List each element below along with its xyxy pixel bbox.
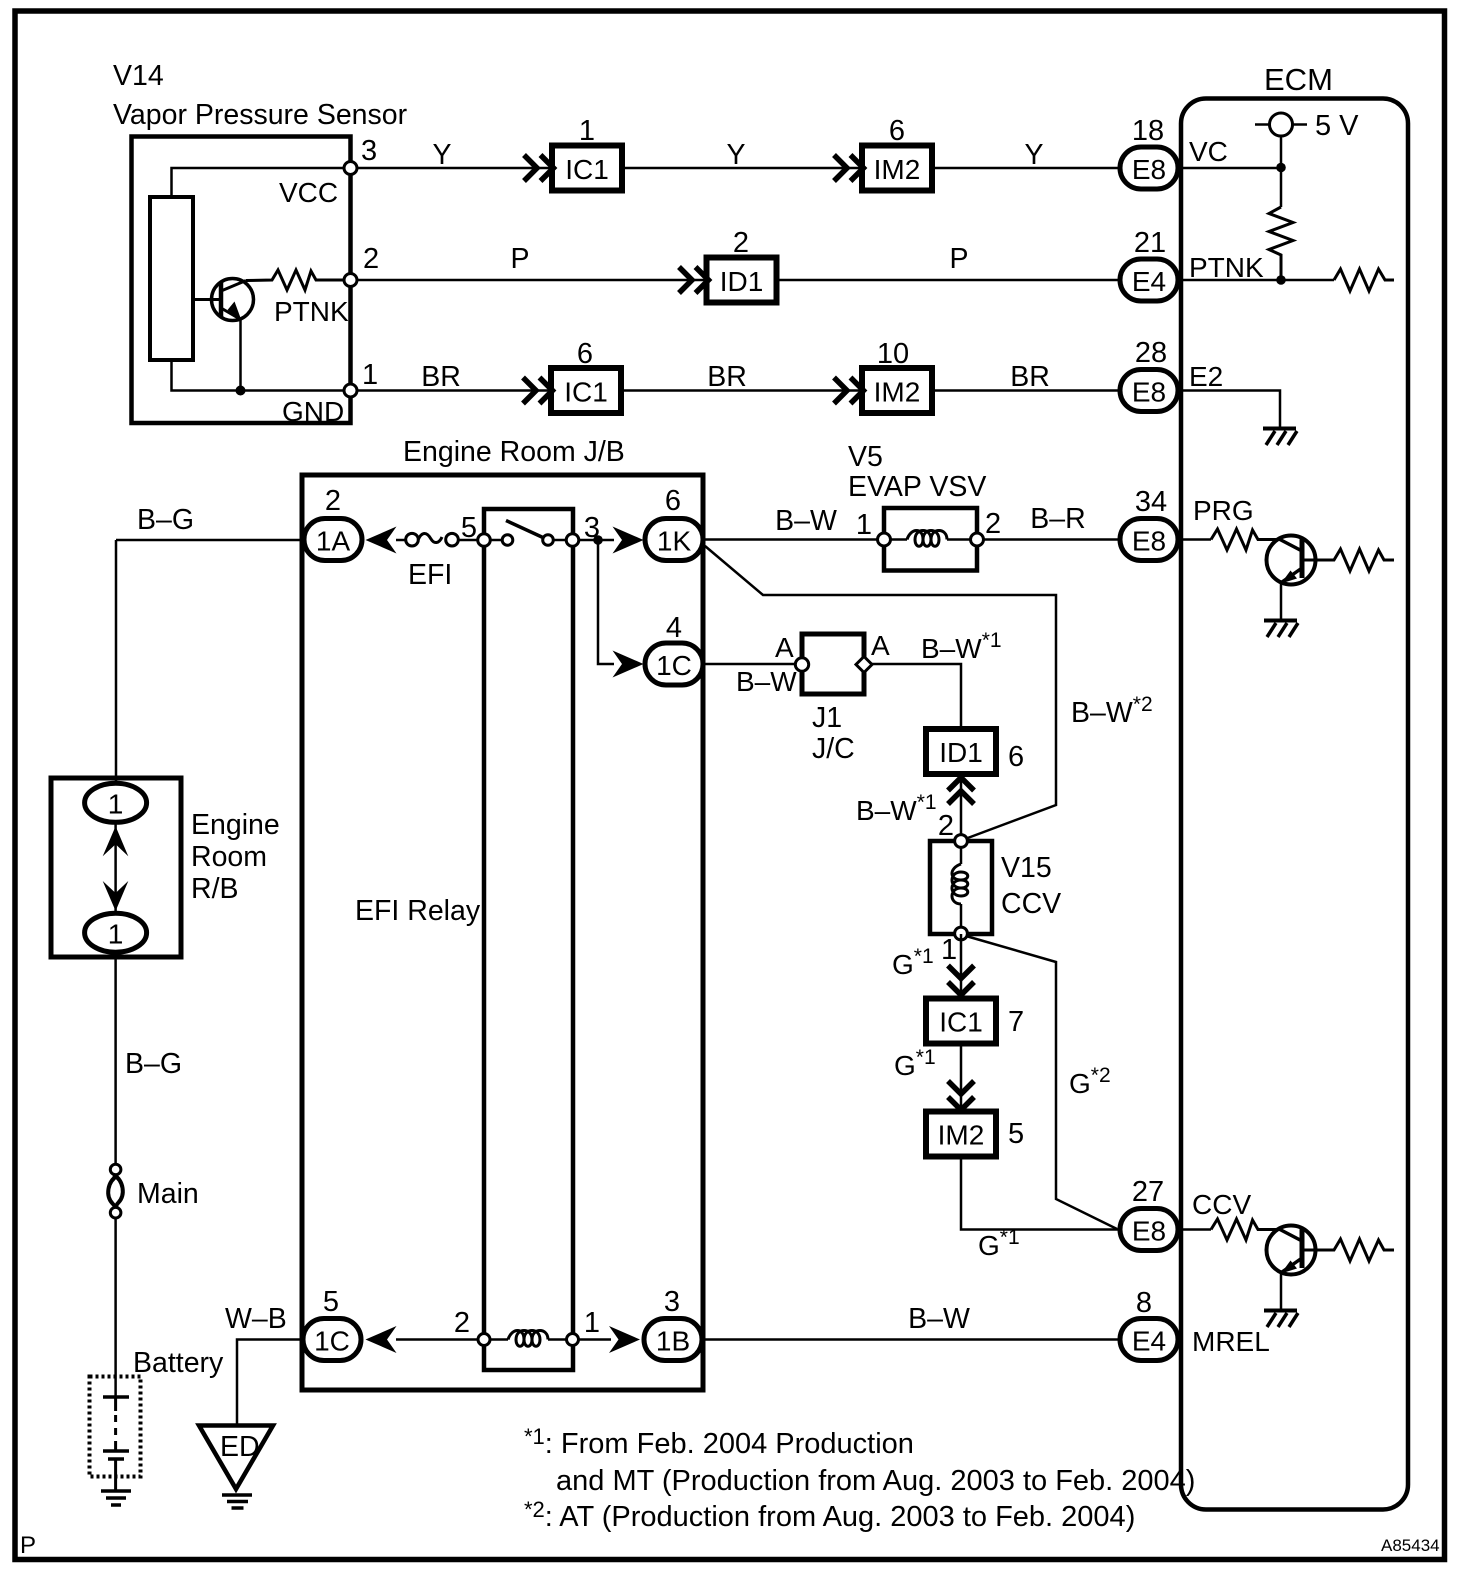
- chassis ground (PRG): [1264, 621, 1298, 638]
- svg-text:E8: E8: [1132, 377, 1166, 408]
- svg-text:BR: BR: [1010, 361, 1050, 393]
- connector E8 pin 28: [1120, 370, 1178, 412]
- wire Main to Battery: [114, 1218, 117, 1397]
- svg-text:E8: E8: [1132, 526, 1166, 557]
- svg-text:V5: V5: [848, 441, 883, 473]
- svg-text:6: 6: [577, 338, 593, 370]
- wire B-G vertical to R/B: [115, 540, 118, 784]
- svg-text:5: 5: [1008, 1118, 1024, 1150]
- svg-text:ID1: ID1: [939, 737, 983, 768]
- junction dot node 3: [593, 535, 603, 545]
- connector 1A pin 2: [304, 519, 362, 561]
- 5V supply symbol: [1255, 113, 1307, 136]
- svg-text:EVAP VSV: EVAP VSV: [848, 471, 986, 503]
- wire VC from E8 to node: [1178, 167, 1281, 170]
- wire BR IM2 to ECM E8: [932, 389, 1120, 392]
- transistor (PRG driver): [1267, 536, 1316, 585]
- relay switch pin circle (edge): [478, 534, 491, 547]
- svg-text:P: P: [949, 243, 968, 275]
- svg-text:3: 3: [664, 1286, 680, 1318]
- svg-text:Battery: Battery: [133, 1347, 224, 1379]
- relay switch pin circle (edge): [566, 534, 579, 547]
- connector 1C pin 5: [303, 1319, 361, 1361]
- connector chevrons into IM2: [834, 378, 864, 404]
- connector chevrons up into ID1: [948, 778, 974, 805]
- wire relay coil to 1B: [579, 1338, 611, 1341]
- svg-text:IC1: IC1: [565, 154, 609, 185]
- arrow into 1K: [613, 527, 644, 554]
- J/C pin A circle: [795, 658, 808, 671]
- svg-text:J1: J1: [812, 702, 842, 734]
- wire B-G to 1A: [116, 539, 304, 542]
- svg-text:1K: 1K: [657, 526, 692, 557]
- relay coil pin circle: [567, 1334, 579, 1346]
- svg-text:EFI: EFI: [408, 559, 452, 591]
- resistor (PRG base): [1211, 529, 1280, 550]
- wire arrow to fuse: [396, 539, 406, 542]
- wire inside relay: [490, 539, 502, 542]
- svg-text:GND: GND: [282, 396, 344, 427]
- svg-text:21: 21: [1134, 227, 1166, 259]
- svg-text:28: 28: [1135, 337, 1167, 369]
- svg-text:B–W: B–W: [736, 666, 797, 697]
- svg-text:PRG: PRG: [1193, 495, 1254, 526]
- wire 5V to VC node: [1280, 136, 1283, 207]
- svg-text:V15: V15: [1001, 852, 1052, 884]
- chassis ground (CCV): [1264, 1311, 1298, 1328]
- svg-text:Y: Y: [1024, 139, 1043, 171]
- VSV pin 2 circle: [971, 533, 984, 546]
- sensing element: [150, 197, 193, 360]
- connector 1B pin 3: [644, 1319, 702, 1361]
- svg-text:*1: From Feb. 2004 Production: *1: From Feb. 2004 Production: [524, 1424, 914, 1460]
- arrow up (R/B pass-through): [103, 826, 129, 856]
- svg-text:Engine Room J/B: Engine Room J/B: [403, 436, 625, 468]
- relay switch blade: [506, 521, 544, 539]
- svg-text:PTNK: PTNK: [274, 296, 349, 327]
- connector chevrons into IC1: [523, 378, 553, 404]
- svg-text:34: 34: [1135, 486, 1167, 518]
- EVAP VSV V5 box: [884, 508, 977, 571]
- svg-text:1C: 1C: [314, 1326, 350, 1357]
- svg-text:V14: V14: [113, 60, 164, 92]
- wire P ID1 to ECM E4: [777, 279, 1121, 282]
- Engine Room R/B box: [51, 778, 181, 957]
- svg-text:2: 2: [363, 243, 379, 275]
- svg-text:7: 7: [1008, 1006, 1024, 1038]
- wire fuse to relay pin 5: [458, 539, 484, 542]
- earth ground (battery): [101, 1491, 131, 1505]
- transistor (CCV driver): [1267, 1226, 1316, 1275]
- svg-text:E4: E4: [1132, 266, 1166, 297]
- svg-text:ECM: ECM: [1264, 62, 1333, 97]
- VSV pin 1 circle: [878, 533, 891, 546]
- svg-text:R/B: R/B: [191, 873, 239, 905]
- EFI relay box: [484, 509, 573, 1370]
- svg-text:Main: Main: [137, 1178, 199, 1210]
- svg-text:B–R: B–R: [1030, 503, 1085, 535]
- connector chevrons down to IM2: [948, 1081, 974, 1110]
- resistor (PTNK load): [1334, 269, 1394, 291]
- svg-text:8: 8: [1136, 1287, 1152, 1319]
- arrow into 1B: [609, 1326, 640, 1353]
- relay coil: [490, 1331, 567, 1347]
- svg-text:J/C: J/C: [812, 733, 855, 765]
- svg-text:3: 3: [361, 135, 377, 167]
- connector IC1 (pin 7): [926, 999, 996, 1044]
- svg-text:1A: 1A: [316, 526, 351, 557]
- R/B connector 1 (bottom): [85, 913, 147, 952]
- svg-text:5: 5: [323, 1286, 339, 1318]
- pin 1 circle: [344, 384, 357, 397]
- wire B-R VSV to E8: [984, 538, 1120, 541]
- connector IM2 (pin 6): [862, 146, 932, 191]
- wire between R/B connectors: [114, 822, 117, 912]
- wire PRG from E8 into ECM: [1178, 538, 1211, 541]
- transistor Q1 (sensor internal): [193, 279, 254, 321]
- svg-text:A: A: [871, 630, 890, 661]
- arrow into 1C: [613, 651, 644, 678]
- chassis ground (E2): [1263, 429, 1297, 446]
- VSV coil: [891, 531, 970, 547]
- svg-text:1: 1: [108, 919, 124, 950]
- connector 1K pin 6: [645, 519, 703, 561]
- svg-text:ID1: ID1: [720, 266, 764, 297]
- svg-text:1C: 1C: [656, 650, 692, 681]
- connector chevrons down to IC1: [948, 966, 974, 996]
- svg-text:6: 6: [889, 115, 905, 147]
- svg-text:A: A: [775, 632, 794, 663]
- svg-text:CCV: CCV: [1192, 1189, 1251, 1220]
- wire G*2 from CCV pin 1 to E8: [966, 936, 1117, 1229]
- ground connector ED: [199, 1426, 273, 1490]
- svg-text:IM2: IM2: [874, 377, 921, 408]
- svg-text:2: 2: [938, 810, 954, 842]
- relay switch contact circle: [502, 535, 513, 546]
- svg-text:6: 6: [665, 485, 681, 517]
- ECM box: [1181, 99, 1408, 1510]
- wire B-W 1C to J/C: [704, 663, 796, 666]
- svg-text:E4: E4: [1132, 1326, 1166, 1357]
- CCV V15 box: [930, 841, 992, 934]
- svg-text:*2: AT (Production from Aug. 2: *2: AT (Production from Aug. 2003 to Feb…: [524, 1497, 1135, 1533]
- svg-text:IM2: IM2: [874, 154, 921, 185]
- connector chevrons into IC1: [524, 155, 554, 181]
- connector IC1 (pin 1): [552, 146, 622, 191]
- wire ID1 to CCV pin 2: [960, 774, 963, 841]
- wire B-G R/B to Main fuse: [114, 952, 117, 1165]
- connector chevrons into IM2: [834, 155, 864, 181]
- svg-text:IC1: IC1: [564, 377, 608, 408]
- connector E4 pin 8: [1120, 1319, 1178, 1361]
- svg-text:Y: Y: [432, 139, 451, 171]
- junction dot VC node: [1276, 163, 1286, 173]
- wire B-W 1B to E4 MREL: [704, 1338, 1120, 1341]
- connector IC1 (pin 6): [551, 368, 621, 413]
- svg-text:2: 2: [985, 508, 1001, 540]
- wire BR sensor pin1 to IC1: [357, 389, 551, 392]
- wire emitter to GND junction: [239, 319, 242, 391]
- svg-text:B–G: B–G: [125, 1048, 182, 1080]
- svg-text:4: 4: [666, 612, 682, 644]
- arrow into 1A: [366, 527, 397, 554]
- svg-text:2: 2: [454, 1307, 470, 1339]
- wire P sensor pin2 to ID1: [357, 279, 707, 282]
- wire W-B to 1C: [237, 1340, 304, 1426]
- connector chevrons into ID1: [679, 267, 709, 293]
- svg-text:VCC: VCC: [279, 177, 338, 208]
- wire element top to VCC pin: [172, 168, 346, 197]
- connector 1C pin 4: [645, 643, 703, 685]
- wire CCV from E8 into ECM: [1178, 1228, 1211, 1231]
- junction dot PTNK node: [1276, 275, 1286, 285]
- svg-text:BR: BR: [707, 361, 747, 393]
- arrow into 1C: [366, 1326, 397, 1353]
- R/B connector 1 (top): [85, 783, 147, 822]
- connector ID1 (pin 2): [707, 258, 777, 303]
- relay switch contact circle: [543, 535, 554, 546]
- svg-text:1: 1: [579, 115, 595, 147]
- svg-text:2: 2: [733, 227, 749, 259]
- resistor (pull-up in ECM): [1269, 207, 1293, 280]
- connector E8 pin 18: [1120, 147, 1178, 189]
- svg-text:IC1: IC1: [939, 1007, 983, 1038]
- svg-text:CCV: CCV: [1001, 888, 1061, 920]
- CCV pin 2 circle: [955, 835, 968, 848]
- svg-text:E8: E8: [1132, 1216, 1166, 1247]
- resistor (sensor internal, PTNK line): [246, 270, 345, 290]
- relay coil pin circle: [478, 1334, 490, 1346]
- svg-text:1: 1: [108, 789, 124, 820]
- svg-text:1: 1: [856, 509, 872, 541]
- svg-text:1: 1: [584, 1307, 600, 1339]
- resistor (CCV base): [1211, 1219, 1280, 1240]
- wire transistor to ground: [1280, 1273, 1283, 1310]
- svg-text:6: 6: [1008, 741, 1024, 773]
- svg-text:PTNK: PTNK: [1189, 252, 1264, 283]
- svg-text:10: 10: [877, 338, 909, 370]
- connector IM2 (pin 5): [926, 1112, 996, 1157]
- CCV coil (vertical): [952, 847, 968, 928]
- wire BR IC1 to IM2: [621, 389, 862, 392]
- svg-text:ED: ED: [220, 1431, 260, 1463]
- CCV pin 1 circle: [955, 927, 968, 940]
- svg-text:18: 18: [1132, 115, 1164, 147]
- fusible link Main: [108, 1164, 123, 1218]
- wire inside relay: [553, 539, 566, 542]
- svg-text:Engine: Engine: [191, 809, 280, 841]
- junction connector J1 J/C box: [802, 634, 864, 694]
- connector E8 pin 34: [1120, 519, 1178, 561]
- svg-text:B–G: B–G: [137, 504, 194, 536]
- svg-text:P: P: [20, 1532, 36, 1559]
- wire B-W 1K to VSV: [704, 538, 884, 541]
- svg-text:EFI Relay: EFI Relay: [355, 895, 481, 927]
- connector E8 pin 27: [1120, 1209, 1178, 1251]
- connector ID1 (pin 6): [926, 729, 996, 774]
- svg-text:Vapor Pressure Sensor: Vapor Pressure Sensor: [113, 99, 408, 131]
- svg-text:P: P: [510, 243, 529, 275]
- wire Y IM2 to ECM E8: [932, 167, 1120, 170]
- wire IC1 to IM2: [960, 1044, 963, 1112]
- arrow down (R/B pass-through): [103, 881, 129, 911]
- svg-text:VC: VC: [1189, 136, 1228, 167]
- svg-text:Y: Y: [726, 139, 745, 171]
- battery: [90, 1377, 141, 1491]
- J/C pin A diamond: [856, 657, 872, 673]
- wire Y sensor pin3 to IC1: [357, 167, 552, 170]
- earth ground (ED): [222, 1495, 252, 1508]
- resistor (CCV emitter-side): [1302, 1239, 1394, 1261]
- wire CCV pin1 to IC1: [960, 934, 963, 999]
- wire PTNK from E4 through node to resistor: [1178, 279, 1334, 282]
- svg-text:5 V: 5 V: [1315, 110, 1359, 142]
- resistor (PRG emitter-side): [1302, 549, 1394, 571]
- svg-text:IM2: IM2: [938, 1120, 985, 1151]
- connector E4 pin 21: [1120, 259, 1178, 301]
- wire relay pin 3 to 1K: [579, 539, 614, 542]
- wire element bottom to GND line: [172, 360, 346, 391]
- svg-text:1B: 1B: [656, 1326, 690, 1357]
- svg-text:Room: Room: [191, 841, 267, 873]
- junction dot on GND line: [236, 386, 246, 396]
- pin 2 circle: [344, 274, 357, 287]
- svg-text:and MT (Production from Aug. 2: and MT (Production from Aug. 2003 to Feb…: [556, 1465, 1195, 1497]
- wire G*1 IM2 to E8: [961, 1157, 1120, 1230]
- svg-text:BR: BR: [421, 361, 461, 393]
- wire B-W*2 from 1K to CCV pin 2: [705, 546, 1056, 839]
- svg-text:E8: E8: [1132, 154, 1166, 185]
- svg-text:B–W: B–W: [908, 1303, 970, 1335]
- Engine Room J/B box: [302, 475, 703, 1390]
- svg-text:2: 2: [325, 485, 341, 517]
- svg-text:1: 1: [362, 359, 378, 391]
- fuse EFI: [406, 533, 459, 546]
- svg-text:B–W: B–W: [775, 505, 837, 537]
- wire transistor to ground: [1280, 583, 1283, 620]
- vapor pressure sensor V14 box: [132, 137, 351, 424]
- svg-text:5: 5: [461, 512, 477, 544]
- svg-text:W–B: W–B: [225, 1303, 287, 1335]
- wire B-W*1 J/C to ID1: [872, 664, 961, 729]
- svg-text:27: 27: [1132, 1176, 1164, 1208]
- svg-text:A85434: A85434: [1381, 1536, 1440, 1555]
- wire Y IC1 to IM2: [622, 167, 862, 170]
- svg-text:E2: E2: [1189, 361, 1223, 392]
- svg-text:1: 1: [941, 934, 957, 966]
- wire node 3 down to 1C feed: [598, 540, 614, 664]
- connector IM2 (pin 10): [862, 368, 932, 413]
- pin 3 circle: [344, 162, 357, 175]
- wire arrow to relay coil pin 2: [396, 1338, 484, 1341]
- svg-text:MREL: MREL: [1192, 1326, 1270, 1357]
- wire E2 to ground: [1178, 391, 1280, 428]
